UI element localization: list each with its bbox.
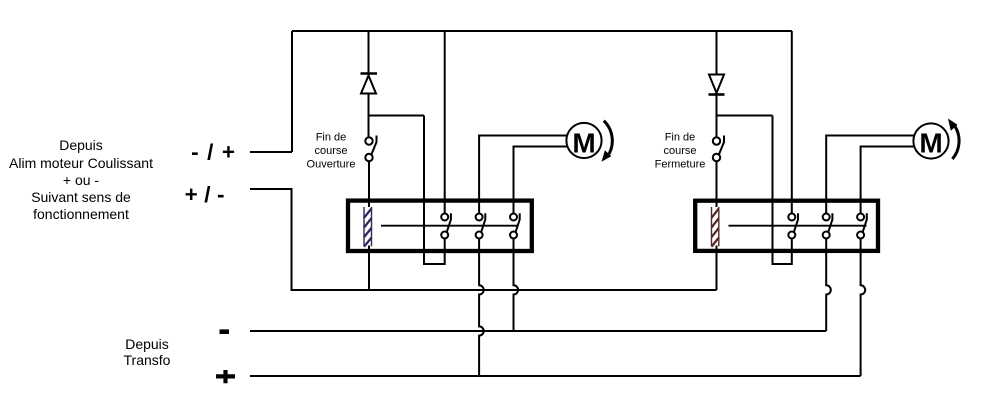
coil K1 (hatched bar): [364, 207, 372, 247]
wire: top bus to contact K1-1: [444, 31, 446, 214]
contact K1-1: [441, 213, 451, 238]
svg-text:Fin de: Fin de: [316, 132, 347, 144]
svg-text:Fin de: Fin de: [665, 132, 696, 144]
wire: D2 branch to contact K2-1 return: [717, 115, 773, 117]
coil K2 (hatched bar): [712, 207, 719, 247]
switch S2: Fin de course Fermeture: [713, 136, 724, 162]
wire: + bus from transfo: [250, 375, 861, 377]
svg-text:-/+: -/+: [191, 139, 243, 164]
svg-text:Ouverture: Ouverture: [307, 158, 356, 170]
svg-text:Fermeture: Fermeture: [655, 158, 706, 170]
diode D2 wires: [716, 31, 718, 137]
mechanical link line K1: [381, 225, 519, 227]
svg-text:M: M: [919, 127, 942, 158]
wire: D1 branch to contact K1-1 return: [369, 115, 425, 117]
contact K2-2: [823, 213, 833, 238]
wire: contact K2-3 bottom to + bus (vestigial hop): [861, 239, 866, 377]
svg-text:+ ou -: + ou -: [63, 172, 100, 188]
label: Fin de course Ouverture: [307, 132, 356, 171]
wire: coil K2 bottom to bottom bus (corner): [716, 246, 718, 291]
contact K1-3: [510, 213, 520, 238]
wire: motor M1 upper lead to contact K1-2: [479, 136, 567, 214]
svg-text:Depuis: Depuis: [59, 137, 103, 153]
wire: -/+ input stub: [250, 151, 292, 153]
label: Depuis Transfo: [124, 336, 171, 368]
wire: +/- input down to bottom bus across to right coil: [250, 189, 717, 290]
contact K1-2: [476, 213, 486, 238]
wire: motor M2 upper lead to contact K2-2: [826, 136, 914, 214]
motor M1 rotation arrow (clockwise): [602, 121, 613, 162]
contact K2-3: [857, 213, 867, 238]
label: + terminal: [216, 370, 235, 383]
svg-text:Transfo: Transfo: [124, 352, 171, 368]
motor M2 rotation arrow (counter-clockwise): [948, 119, 959, 160]
wire: - bus from transfo: [250, 330, 826, 332]
wire: top supply bus: [292, 30, 792, 32]
diode D1 wires (anode below, cathode to top bus): [368, 31, 370, 137]
wire: motor M2 lower lead to contact K2-3: [861, 147, 914, 214]
svg-text:Depuis: Depuis: [125, 336, 169, 352]
label: - terminal: [220, 329, 230, 334]
wire: contact K2-1 bottom U-turn to D2 branch: [773, 116, 792, 265]
wire: contact K1-1 bottom U-turn to D1 branch: [424, 116, 445, 265]
wire: motor M1 lower lead to contact K1-3: [514, 147, 567, 214]
svg-text:course: course: [314, 145, 347, 157]
relay box K1: [348, 201, 532, 251]
relay box K2: [695, 201, 878, 251]
diode D2 (pointing down): [709, 75, 725, 95]
svg-text:fonctionnement: fonctionnement: [33, 206, 129, 222]
svg-text:+/-: +/-: [185, 182, 231, 207]
contact K2-1: [788, 213, 798, 238]
wire: left vertical from top bus down to -/+ input: [291, 31, 293, 152]
wire: contact K1-2 bottom to + bus (hops over bottom bus and - bus): [479, 239, 484, 377]
wire: switch S2 to coil K2: [716, 161, 718, 207]
switch S1: Fin de course Ouverture: [365, 136, 376, 162]
wire: coil K1 bottom to bottom bus: [368, 246, 370, 291]
svg-text:Alim moteur Coulissant: Alim moteur Coulissant: [9, 155, 153, 171]
svg-text:course: course: [663, 145, 696, 157]
svg-text:M: M: [572, 127, 595, 158]
wire: top bus to contact K2-1: [791, 31, 793, 214]
diode D1 (pointing up): [361, 74, 378, 94]
motor M1: [566, 123, 601, 158]
motor M2: [913, 123, 948, 158]
wire: switch S1 to coil K1: [368, 161, 370, 207]
label: Fin de course Fermeture: [655, 132, 706, 171]
wire: contact K1-3 bottom to - bus (hop over bottom bus): [514, 239, 519, 332]
svg-text:Suivant sens de: Suivant sens de: [31, 189, 131, 205]
mechanical link line K2: [729, 225, 867, 227]
wire: contact K2-2 bottom to - bus (vestigial hop): [826, 239, 831, 332]
label: Depuis Alim moteur Coulissant block: [9, 137, 153, 222]
